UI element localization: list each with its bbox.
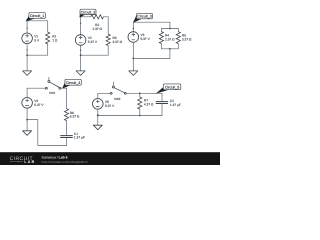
pin dot V2 bottom <box>80 50 81 51</box>
resistor R7 <box>138 97 142 109</box>
junction dot circuit 2 bottom-left <box>80 54 82 56</box>
svg-text:2.37 Ω: 2.37 Ω <box>92 27 102 31</box>
wire: circuit 1 top rail <box>27 20 48 22</box>
wire: circuit 1 left branch lower to ground <box>26 44 28 71</box>
wire: C2 drop <box>161 93 163 101</box>
V3 value label <box>141 33 151 41</box>
svg-text:SW1: SW1 <box>49 91 56 95</box>
voltage source V2 <box>75 35 86 46</box>
V2 value label <box>88 36 98 44</box>
C1 value label <box>74 132 85 140</box>
wire: stub from parallel bottom bar to bottom rail <box>169 49 171 59</box>
resistor R6 <box>64 109 68 121</box>
svg-text:LAB: LAB <box>24 159 35 164</box>
pin dot V1 bottom <box>26 49 27 50</box>
wire: R6 to C1 <box>66 121 68 136</box>
wire: circuit 4 V4 riser <box>26 88 28 97</box>
ground circuit 4 <box>23 131 32 136</box>
svg-text:http://circuitlab.com/c/s6uqjs: http://circuitlab.com/c/s6uqjsb8rvr5 <box>42 160 89 164</box>
wire: circuit 1 bottom rail <box>27 54 48 56</box>
R2 value label <box>92 23 102 31</box>
svg-text:2.37 Ω: 2.37 Ω <box>165 38 175 42</box>
svg-text:4.37 Ω: 4.37 Ω <box>144 102 154 106</box>
svg-text:5 V: 5 V <box>34 38 40 42</box>
wire: circuit 1 right branch lower <box>47 44 49 55</box>
voltage source V3 <box>128 32 139 43</box>
junction dot circuit 4 <box>26 119 28 121</box>
wire: circuit 2 right branch upper <box>107 17 109 34</box>
label box Circuit_3 <box>133 13 153 22</box>
V4 value label <box>34 99 44 107</box>
junction dot R7 bottom <box>139 115 141 117</box>
wire: R4 top stub <box>160 29 162 32</box>
wire: V4 lower branch to ground <box>26 108 28 131</box>
pin dot V1 top <box>26 28 27 29</box>
wire: circuit 2 left branch upper <box>80 17 82 35</box>
junction dot R7 top <box>139 92 141 94</box>
CircuitLab logo wordmark <box>10 156 36 164</box>
wire: circuit 5 top rail right <box>126 92 162 94</box>
wire: R6 drop <box>66 88 68 108</box>
resistor R5 <box>176 32 180 44</box>
svg-text:6.37 Ω: 6.37 Ω <box>70 115 80 119</box>
V5 value label <box>105 100 115 108</box>
label box Circuit_2 <box>80 9 97 17</box>
wire: circuit 3 bottom rail <box>133 57 170 59</box>
wire: R7 drop <box>139 93 141 97</box>
svg-text:SW2: SW2 <box>114 97 121 101</box>
ground circuit 2 <box>76 71 85 76</box>
wire: switch to R6 corner <box>61 87 67 89</box>
svg-text:1 Ω: 1 Ω <box>52 38 58 42</box>
wire: R4 bottom stub <box>160 44 162 49</box>
svg-text:1.37 µF: 1.37 µF <box>74 136 85 140</box>
R6 value label <box>70 111 80 119</box>
wire: circuit 1 right branch upper <box>47 21 49 32</box>
wire: circuit 2 top rail left segment <box>81 16 91 18</box>
svg-text:1.37 µF: 1.37 µF <box>170 103 181 107</box>
wire: C2 to bottom rail <box>161 104 163 116</box>
pin dot V2 top <box>80 23 81 24</box>
voltage source V5 <box>93 99 104 110</box>
wire: circuit 3 left branch upper <box>132 22 134 32</box>
capacitor C2 <box>156 102 168 104</box>
wire: R7 to bottom rail <box>139 109 141 115</box>
resistor R1 <box>46 32 50 44</box>
wire: parallel section top bar <box>161 28 178 30</box>
R5 value label <box>182 34 192 42</box>
wire: circuit 5 bottom rail <box>98 115 162 117</box>
junction dot parallel bottom <box>169 48 171 50</box>
switch SW1 <box>45 77 60 89</box>
wire: R5 top stub <box>177 29 179 32</box>
R4 value label <box>165 34 175 42</box>
wire: R5 bottom stub <box>177 44 179 49</box>
junction dot circuit 1 bottom-left <box>26 54 28 56</box>
footer bar <box>0 152 220 165</box>
svg-text:5.37 V: 5.37 V <box>105 104 115 108</box>
wire: circuit 4 top rail from V4 to switch <box>27 87 45 89</box>
C2 value label <box>170 99 181 107</box>
svg-text:Circuit_1: Circuit_1 <box>30 14 45 18</box>
wire: parallel section bottom bar <box>161 48 178 50</box>
V1 value label <box>34 34 40 42</box>
wire: circuit 1 left branch upper <box>26 21 28 33</box>
resistor R4 <box>159 32 163 44</box>
wire: C1 to bottom rail <box>66 138 68 146</box>
junction dot parallel top <box>169 28 171 30</box>
label box Circuit_5 <box>156 84 181 94</box>
label box Circuit_4 <box>62 79 81 88</box>
wire: circuit 4 return route <box>27 120 66 146</box>
svg-text:3.37 Ω: 3.37 Ω <box>182 38 192 42</box>
wire: circuit 5 left branch lower <box>97 109 99 125</box>
ground circuit 3 <box>129 71 138 76</box>
svg-text:Circuit_2: Circuit_2 <box>81 10 96 14</box>
wire: circuit 5 left branch upper <box>97 93 99 98</box>
svg-text:Circuit_3: Circuit_3 <box>137 15 152 19</box>
voltage source V1 <box>22 33 33 44</box>
resistor R2 (horizontal) <box>91 15 104 19</box>
R3 value label <box>113 36 123 44</box>
wire: circuit 3 stub to parallel top bar <box>169 22 171 28</box>
resistor R3 <box>106 34 110 45</box>
junction dot circuit 5 bottom-left <box>97 114 99 116</box>
wire: circuit 2 left branch lower to ground <box>80 45 82 71</box>
svg-text:5.37 V: 5.37 V <box>141 37 151 41</box>
junction dot circuit 3 bottom-left <box>132 58 134 60</box>
svg-text:Circuit_4: Circuit_4 <box>66 81 81 85</box>
wire: circuit 2 bottom rail <box>81 54 109 56</box>
switch SW2 <box>110 82 126 94</box>
svg-text:3.37 Ω: 3.37 Ω <box>113 40 123 44</box>
svg-text:5.37 V: 5.37 V <box>88 40 98 44</box>
capacitor C1 <box>61 136 73 138</box>
wire: circuit 3 top rail <box>133 21 170 23</box>
svg-text:5.37 V: 5.37 V <box>34 103 44 107</box>
R7 value label <box>144 98 154 106</box>
pin dot V3 top <box>133 28 134 29</box>
wire: circuit 3 left branch lower to ground <box>132 42 134 71</box>
wire: circuit 5 top rail left <box>98 92 110 94</box>
voltage source V4 <box>22 98 33 109</box>
wire: circuit 2 top rail right segment <box>104 16 109 18</box>
svg-text:Circuit_5: Circuit_5 <box>165 86 180 90</box>
wire: circuit 2 right branch lower <box>107 46 109 56</box>
R1 value label <box>52 34 58 42</box>
label box Circuit_1 <box>26 13 46 22</box>
ground circuit 1 <box>23 71 32 76</box>
ground circuit 5 <box>93 125 102 130</box>
